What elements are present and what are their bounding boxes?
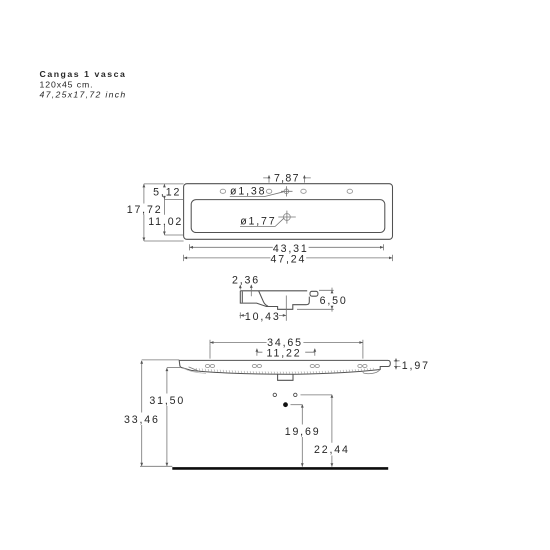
dimension 7,87 [263, 173, 311, 185]
sink body (front elevation) [179, 360, 390, 374]
dimension 22,44 [314, 394, 350, 467]
svg-text:31,50: 31,50 [149, 395, 185, 407]
svg-text:ø1,77: ø1,77 [240, 216, 276, 228]
left underside shadow curve [183, 368, 206, 373]
mounting slot mid-right [310, 364, 319, 367]
section profile outline [240, 291, 309, 310]
basin inner wall curve [259, 291, 268, 306]
basin inner rectangle [191, 200, 385, 233]
svg-text:ø1,38: ø1,38 [230, 186, 266, 198]
wall fixing hole right [294, 393, 297, 396]
svg-text:47,25x17,72 inch: 47,25x17,72 inch [40, 89, 127, 99]
front lip hook [310, 291, 318, 296]
crosshair center mark o1,77 (drain) [278, 211, 296, 224]
dimension 17,72 [127, 184, 163, 241]
label o1,77 with leader [240, 216, 284, 228]
right underside flap curve [363, 369, 380, 373]
back wall inner line [241, 292, 243, 303]
dimension 11,22 [256, 348, 317, 360]
svg-text:22,44: 22,44 [314, 444, 350, 456]
svg-text:33,46: 33,46 [124, 414, 160, 426]
leader from fixing hole to 22,44 [301, 394, 332, 396]
svg-text:6,50: 6,50 [320, 295, 348, 307]
mounting slot far-left [205, 364, 214, 367]
drain outlet dot [283, 402, 288, 407]
faucet hole far-left [220, 189, 225, 193]
svg-text:120x45 cm.: 120x45 cm. [40, 79, 94, 89]
faucet hole far-right [347, 189, 352, 193]
dimension 19,69 [285, 404, 321, 467]
extension tick at basin bottom [164, 234, 183, 236]
svg-text:2,36: 2,36 [232, 274, 260, 286]
dimension 10,43 [239, 311, 286, 323]
svg-text:17,72: 17,72 [127, 204, 163, 216]
left underside inner line [189, 367, 201, 372]
dimension 5,12 [153, 184, 181, 200]
svg-text:11,02: 11,02 [148, 216, 183, 228]
dimension 2,36 [232, 274, 260, 296]
drain center line [285, 296, 287, 321]
dimension 6,50 [297, 288, 348, 312]
extension tick top-left [144, 183, 184, 185]
svg-text:10,43: 10,43 [245, 311, 281, 323]
floor line [172, 467, 388, 470]
sink outer rim rectangle [184, 184, 393, 240]
leader from drain dot to 19,69 [291, 404, 303, 406]
underside hatch [196, 368, 374, 374]
crosshair center mark o1,38 [281, 186, 293, 196]
mounting slot far-right [358, 364, 367, 367]
svg-text:11,22: 11,22 [267, 348, 302, 360]
extension tick at basin top [164, 198, 183, 200]
faucet hole mid-left [266, 189, 271, 193]
svg-text:Cangas 1 vasca: Cangas 1 vasca [40, 69, 127, 79]
dimension 1,97 [394, 358, 430, 372]
dimension 33,46 [124, 360, 179, 466]
dimension 43,31 [190, 243, 384, 255]
svg-text:7,87: 7,87 [274, 173, 300, 185]
dimension 47,24 [184, 253, 393, 265]
siphon cover rectangle [278, 374, 293, 380]
svg-text:1,97: 1,97 [402, 360, 430, 372]
svg-text:47,24: 47,24 [271, 253, 307, 265]
mounting slot mid-left [252, 364, 261, 367]
svg-text:19,69: 19,69 [285, 426, 321, 438]
faucet hole mid-right [301, 189, 306, 193]
dimension 34,65 [210, 337, 363, 358]
dimension 31,50 [149, 367, 185, 466]
label o1,38 with leader [230, 186, 284, 198]
svg-text:5,12: 5,12 [153, 187, 181, 199]
wall fixing hole left [273, 393, 276, 396]
dimension 11,02 [148, 199, 183, 235]
floor extension line [140, 465, 172, 467]
extension tick bottom-left [144, 240, 184, 242]
